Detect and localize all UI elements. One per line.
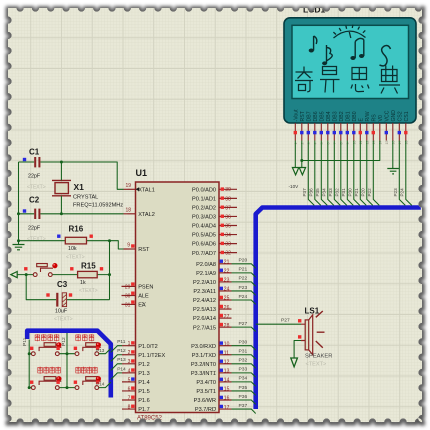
svg-text:P21: P21 [239,267,248,273]
svg-text:11: 11 [224,350,229,356]
svg-text:P3.4/T0: P3.4/T0 [196,380,216,386]
wire P31 [232,355,256,359]
svg-text:RST: RST [138,247,150,253]
resistor R15 [70,261,103,294]
svg-text:P37: P37 [239,403,248,409]
svg-text:P0.7/AD7: P0.7/AD7 [192,251,216,257]
svg-text:P12: P12 [61,337,67,346]
wire P27 (bus to speaker) [256,323,301,325]
svg-text:DB3: DB3 [333,111,339,121]
svg-text:3: 3 [128,359,131,365]
crystal X1 [52,180,123,208]
svg-text:EA: EA [138,303,146,309]
svg-text:DB5: DB5 [320,111,326,121]
svg-text:1: 1 [128,341,131,347]
svg-text:7: 7 [128,395,131,401]
svg-text:24: 24 [224,287,230,293]
U1 P0 pins 39-32 [219,187,237,256]
svg-text:P20: P20 [361,188,366,197]
wire P13 (button2 to bus) [99,348,111,353]
svg-text:P14: P14 [96,382,105,387]
svg-text:6: 6 [128,386,131,392]
svg-text:LS1: LS1 [305,307,320,316]
svg-text:3: 3 [307,143,311,145]
switch button3 (bottom-left) [31,386,35,390]
svg-text:R16: R16 [69,225,84,234]
wire C3 row [26,275,56,300]
node reset row left junction [25,273,28,276]
svg-text:32: 32 [225,251,231,257]
svg-text:P2.7/A15: P2.7/A15 [193,325,216,331]
svg-text:<TEXT>: <TEXT> [27,185,46,191]
svg-text:P35: P35 [315,188,320,197]
U1 P3 pin names [191,344,216,413]
svg-text:25: 25 [224,296,230,302]
svg-text:P0.6/AD6: P0.6/AD6 [192,242,216,248]
svg-text:22: 22 [224,269,230,275]
U1 P2 pin names [193,262,216,331]
node C1/XTAL1 junction [60,161,63,164]
svg-text:4: 4 [313,143,317,145]
wire RST to -10V [301,141,303,168]
value label button2 [76,334,94,341]
svg-text:26: 26 [224,305,230,311]
svg-text:P3.5/T1: P3.5/T1 [196,389,216,395]
wire C2 row to XTAL2 [19,213,35,215]
svg-text:P2.4/A12: P2.4/A12 [193,298,216,304]
svg-text:P1.7: P1.7 [138,407,150,413]
svg-text:9: 9 [127,243,130,249]
svg-text:17: 17 [398,141,402,145]
LCD screen note glyph 2 [322,45,332,65]
U1 P2 pins 21-28 [219,260,232,329]
value label button3 [38,367,61,374]
bus P1 (keypad blue bus) [27,331,111,398]
U1 left pin names [138,187,165,413]
svg-text:<TEXT>: <TEXT> [79,288,98,294]
svg-text:CS2: CS2 [398,111,404,121]
svg-text:<TEXT>: <TEXT> [306,362,327,368]
svg-text:C3: C3 [57,280,68,289]
wires P11-P14 (bus to U1 P1.0-P1.3) [111,339,126,379]
U1 PSEN/ALE/EA pins 29 30 31 [122,282,136,308]
LCD1 pin name labels (vertical) [294,109,411,122]
svg-text:22pF: 22pF [28,174,41,180]
wire P33 [232,373,256,377]
svg-text:11: 11 [359,141,363,145]
svg-text:P2.5/A13: P2.5/A13 [193,307,216,313]
wire speaker to ground [294,341,301,359]
bus P2/P0 (main blue bus) [256,208,421,410]
svg-text:15: 15 [224,387,230,393]
node keypad middle junctions [66,352,69,355]
svg-text:P31: P31 [239,349,248,355]
svg-text:P3.0/RXD: P3.0/RXD [191,344,216,350]
LCD screen gauge arc [333,25,365,38]
svg-text:16: 16 [391,141,395,145]
svg-text:DB1: DB1 [346,111,352,121]
svg-text:12: 12 [224,360,230,366]
svg-text:30: 30 [125,294,131,300]
wire left ground rail [18,162,20,244]
svg-text:5: 5 [320,143,324,145]
wire P27 (U1 to bus) [232,327,256,331]
LCD screen hanzi 3 [351,68,369,92]
svg-text:U1: U1 [136,168,148,178]
svg-text:4: 4 [128,368,131,374]
svg-text:38: 38 [225,196,231,202]
node C2/XTAL2 junction [60,212,63,215]
svg-text:P2.6/A14: P2.6/A14 [193,316,216,322]
wire P14 (button4 to bus) [99,382,111,387]
svg-text:P32: P32 [335,188,340,197]
U1 P1 pins 1-8 [122,341,136,410]
LCD screen S glyph [380,46,391,66]
svg-text:P36: P36 [239,394,248,400]
wire P36 [232,400,256,404]
svg-text:P13: P13 [117,357,126,363]
svg-text:FREQ=11.0592MHz: FREQ=11.0592MHz [73,203,123,209]
svg-text:P30: P30 [348,188,353,197]
svg-text:P27: P27 [281,318,290,324]
U1 XTAL2 pin 18 [124,213,136,215]
svg-text:31: 31 [125,302,131,308]
svg-text:1k: 1k [80,280,86,286]
node keypad left junctions [28,352,31,355]
wires LCD data/control pins to bus [302,141,379,206]
svg-text:<TEXT>: <TEXT> [66,255,85,261]
svg-text:P36: P36 [309,188,314,197]
op-amp U1 (microcontroller AT89C52 body) [136,168,220,413]
svg-text:9: 9 [346,143,350,145]
svg-text:21: 21 [224,260,230,266]
wire P37 [232,409,256,413]
wire CS1 to bus (P24) [406,141,412,206]
node R15 right junction [108,273,111,276]
svg-text:39: 39 [225,187,231,193]
svg-text:27: 27 [224,314,230,320]
svg-text:10: 10 [352,141,356,145]
svg-text:P3.6/WR: P3.6/WR [194,398,216,404]
svg-text:P31: P31 [341,188,346,197]
svg-text:P21: P21 [354,188,359,197]
svg-text:P11: P11 [22,337,28,346]
svg-text:2: 2 [300,143,304,145]
svg-text:18: 18 [404,141,408,145]
svg-text:XTAL2: XTAL2 [138,212,155,218]
U1 P3 pins 10-17 [219,341,232,410]
svg-text:16: 16 [224,396,230,402]
wire GND pin to ground [392,141,394,169]
svg-text:35: 35 [225,223,231,229]
svg-text:P3.7/RD: P3.7/RD [195,407,216,413]
svg-text:17: 17 [224,405,230,411]
svg-text:6: 6 [326,143,330,145]
svg-text:DB7: DB7 [307,111,313,121]
wire -Vout to -10V [294,141,296,168]
svg-text:28: 28 [224,323,230,329]
wire P24 [232,300,256,304]
svg-text:P2.1/A9: P2.1/A9 [196,271,216,277]
U1 XTAL1 pin 19 [124,188,136,190]
svg-text:10uF: 10uF [55,309,68,315]
wire P20 [232,264,256,268]
ground (left rail) [13,245,25,250]
wire R16 row [19,240,66,242]
svg-text:P3.3/INT1: P3.3/INT1 [191,371,216,377]
switch button1 (top-left) [31,352,35,356]
svg-text:P12: P12 [117,348,126,354]
svg-text:R15: R15 [81,261,96,270]
svg-text:P23: P23 [239,285,248,291]
svg-text:<TEXT>: <TEXT> [27,237,46,243]
svg-text:13: 13 [372,141,376,145]
svg-text:1: 1 [294,143,298,145]
LCD screen hanzi 1 [295,67,313,92]
push button (reset) [33,263,57,277]
resistor R16 [57,225,93,261]
wire P35 [232,391,256,395]
switch button4 (bottom-right) [75,386,79,390]
svg-text:VCC: VCC [385,110,391,121]
value label button4 [76,367,97,374]
svg-text:E: E [359,118,365,122]
svg-text:-Vout: -Vout [294,109,300,122]
svg-text:P34: P34 [239,376,248,382]
svg-text:33: 33 [225,242,231,248]
svg-text:P3.2/INT0: P3.2/INT0 [191,362,216,368]
svg-text:CS1: CS1 [404,111,410,121]
svg-text:23: 23 [224,278,230,284]
svg-text:DB4: DB4 [326,111,332,121]
capacitor C3 [46,280,72,323]
svg-text:P1.4: P1.4 [138,380,150,386]
LCD screen hanzi 4 [379,66,400,94]
speaker LS1 [298,307,332,368]
svg-text:R/W: R/W [365,111,371,121]
svg-text:P0.2/AD2: P0.2/AD2 [192,206,216,212]
svg-text:P33: P33 [239,367,248,373]
svg-text:P37: P37 [302,188,307,197]
node R16 left junction [17,239,20,242]
svg-text:29: 29 [125,284,131,290]
ground (speaker, arrow style) [291,358,298,367]
svg-text:RS: RS [372,114,378,122]
svg-text:P32: P32 [239,358,248,364]
svg-text:P0.5/AD5: P0.5/AD5 [192,233,216,239]
wire P23 [232,291,256,295]
svg-text:CRYSTAL: CRYSTAL [73,195,98,201]
svg-text:P0.1/AD1: P0.1/AD1 [192,196,216,202]
terminal arrow (left, reset row) [11,272,17,278]
wire P22 [232,282,256,286]
svg-text:P22: P22 [367,188,372,197]
LCD module LCD1 body [284,18,416,123]
svg-text:P2.2/A10: P2.2/A10 [193,280,216,286]
capacitor C1 [23,148,46,191]
LCD screen hanzi 2 [320,67,340,93]
power -10V (double down arrows) [292,168,305,175]
svg-text:P3.1/TXD: P3.1/TXD [192,353,216,359]
wire P30 [232,346,256,350]
svg-text:14: 14 [224,378,230,384]
svg-text:RST: RST [300,110,306,121]
svg-text:19: 19 [125,183,131,189]
svg-text:XTAL1: XTAL1 [138,187,155,193]
svg-text:P0.4/AD4: P0.4/AD4 [192,224,216,230]
svg-text:34: 34 [225,232,231,238]
LCD screen note glyph 1 [309,36,317,53]
svg-text:ALE: ALE [138,294,149,300]
wire keypad middle rail [67,333,75,388]
LCD screen note glyph 3 (beamed pair) [350,38,364,60]
svg-text:P14: P14 [117,366,126,372]
svg-text:P1.0/T2: P1.0/T2 [138,344,158,350]
svg-text:P20: P20 [239,258,248,264]
svg-text:-10V: -10V [289,184,300,189]
value label button1 [35,334,59,341]
svg-text:14: 14 [378,141,382,145]
svg-text:P11: P11 [117,339,126,345]
svg-text:18: 18 [125,208,131,214]
switch button2 (top-right) [75,352,79,356]
svg-text:P30: P30 [239,340,248,346]
svg-text:P2.0/A8: P2.0/A8 [196,262,216,268]
capacitor C2 [23,196,46,243]
svg-text:5: 5 [128,377,131,383]
svg-text:PSEN: PSEN [138,285,153,291]
svg-text:P22: P22 [239,276,248,282]
U1 P0 pin names [192,187,216,256]
svg-text:SPEAKER: SPEAKER [305,354,332,360]
svg-text:7: 7 [333,143,337,145]
svg-text:P24: P24 [239,294,248,300]
svg-text:P34: P34 [322,188,327,197]
svg-text:P27: P27 [239,321,248,327]
svg-text:8: 8 [339,143,343,145]
svg-text:10: 10 [224,341,230,347]
U1 RST pin 9 [124,248,136,250]
wire P21 [232,273,256,277]
svg-text:P1.1/T2EX: P1.1/T2EX [138,353,165,359]
svg-text:GND: GND [391,110,397,122]
wire P34 [232,382,256,386]
svg-text:C2: C2 [29,196,40,205]
wire V0 to -10V rail [302,141,380,161]
ground (LCD) [387,169,399,174]
svg-text:15: 15 [385,141,389,145]
svg-text:DB6: DB6 [313,111,319,121]
svg-text:37: 37 [225,205,231,211]
svg-text:P1.3: P1.3 [138,371,150,377]
svg-text:C1: C1 [29,148,40,157]
svg-text:P1.6: P1.6 [138,398,150,404]
svg-text:DB0: DB0 [352,111,358,121]
wire C1 row to XTAL1 [19,161,35,163]
svg-text:12: 12 [365,141,369,145]
svg-text:P13: P13 [96,348,105,353]
svg-text:DB2: DB2 [339,111,345,121]
wire P32 [232,364,256,368]
svg-text:P35: P35 [239,385,248,391]
svg-text:P0.0/AD0: P0.0/AD0 [192,187,216,193]
svg-text:P33: P33 [328,188,333,197]
svg-text:P2.3/A11: P2.3/A11 [193,289,216,295]
wire X1 vertical [60,162,62,180]
wire keypad left rail [29,340,31,388]
LCD1 pin stubs and state squares [294,123,409,145]
wire CS2 to bus (P23) [399,141,405,206]
node R16/RST junction [108,239,111,242]
svg-text:<TEXT>: <TEXT> [54,317,73,323]
svg-text:V0: V0 [378,115,384,121]
node RST/V0 junction [300,159,303,162]
svg-text:36: 36 [225,214,231,220]
wire reset row [17,274,33,276]
svg-text:P23: P23 [393,188,398,197]
wire reset vertical [109,241,111,300]
svg-text:P24: P24 [400,188,405,197]
svg-text:P1.2: P1.2 [138,362,150,368]
svg-text:2: 2 [128,350,131,356]
svg-text:13: 13 [224,369,230,375]
svg-text:P1.5: P1.5 [138,389,150,395]
svg-text:P0.3/AD3: P0.3/AD3 [192,215,216,221]
svg-text:X1: X1 [74,182,85,192]
svg-text:22pF: 22pF [28,226,41,232]
svg-text:8: 8 [128,404,131,410]
svg-text:10k: 10k [68,246,77,252]
